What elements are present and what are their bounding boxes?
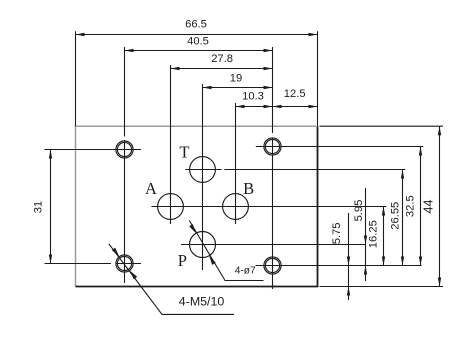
- extension line left holes column: [124, 47, 126, 283]
- svg-text:66.5: 66.5: [185, 19, 207, 31]
- dimension 32.5: [420, 147, 422, 266]
- svg-text:44: 44: [421, 200, 435, 214]
- svg-text:12.5: 12.5: [284, 88, 306, 100]
- extension row top-right hole: [256, 146, 423, 148]
- svg-text:4-ø7: 4-ø7: [235, 266, 256, 277]
- port T: [190, 157, 216, 183]
- dimension 40.5: [125, 50, 273, 52]
- dimension 10.3: [236, 106, 273, 108]
- svg-text:5.95: 5.95: [353, 200, 365, 222]
- hole bottom-right M5: [264, 257, 281, 274]
- extension row plate bottom right: [320, 286, 444, 288]
- extension row top-left hole: [45, 149, 142, 151]
- dimension 44: [439, 126, 441, 286]
- extension row ports A-B: [151, 206, 386, 208]
- dimension 5.75: [348, 213, 350, 300]
- extension row port T: [185, 169, 405, 171]
- dimension 31: [50, 150, 52, 264]
- svg-text:26.55: 26.55: [390, 202, 402, 230]
- svg-text:40.5: 40.5: [187, 36, 209, 48]
- dimension 27.8: [171, 68, 273, 70]
- dimension 16.25: [383, 207, 385, 266]
- leader 4-dia7: [189, 221, 263, 281]
- extension line T/P column: [202, 84, 204, 270]
- dimension 66.5: [76, 34, 318, 36]
- extension row plate top right: [320, 125, 444, 127]
- plate right edge: [317, 126, 319, 286]
- plate top edge (gray): [76, 125, 317, 127]
- svg-text:16.25: 16.25: [367, 220, 379, 248]
- port A: [158, 194, 184, 220]
- dimension 19: [203, 87, 273, 89]
- extension line right holes column: [272, 47, 274, 289]
- svg-text:P: P: [178, 251, 187, 270]
- extension row bottom-left hole: [45, 263, 142, 265]
- hole top-left M5: [116, 141, 133, 158]
- extension row port P: [181, 244, 366, 246]
- svg-text:4-M5/10: 4-M5/10: [179, 294, 225, 308]
- extension line plate left column: [75, 31, 77, 126]
- svg-text:B: B: [243, 179, 254, 198]
- extension line plate right column: [317, 31, 319, 126]
- port B: [223, 194, 249, 220]
- dimension 5.95: [365, 188, 367, 281]
- dimension 26.55: [402, 170, 404, 266]
- svg-text:32.5: 32.5: [405, 195, 417, 217]
- hole top-right M5: [264, 138, 281, 155]
- plate bottom edge: [76, 286, 319, 288]
- svg-text:27.8: 27.8: [211, 53, 233, 65]
- extension line port A column: [170, 65, 172, 224]
- port P: [190, 232, 216, 258]
- leader 4-M5/10: [109, 244, 234, 315]
- svg-text:A: A: [145, 179, 157, 198]
- hole bottom-left M5: [116, 255, 133, 272]
- svg-text:19: 19: [230, 73, 242, 85]
- svg-text:5.75: 5.75: [331, 223, 343, 245]
- svg-text:T: T: [179, 143, 189, 162]
- plate left edge (gray): [75, 125, 77, 286]
- svg-text:10.3: 10.3: [242, 91, 264, 103]
- extension row bottom-right hole: [256, 265, 422, 267]
- svg-text:31: 31: [32, 201, 44, 213]
- extension line port B column: [235, 103, 237, 224]
- dimension 12.5: [273, 106, 318, 108]
